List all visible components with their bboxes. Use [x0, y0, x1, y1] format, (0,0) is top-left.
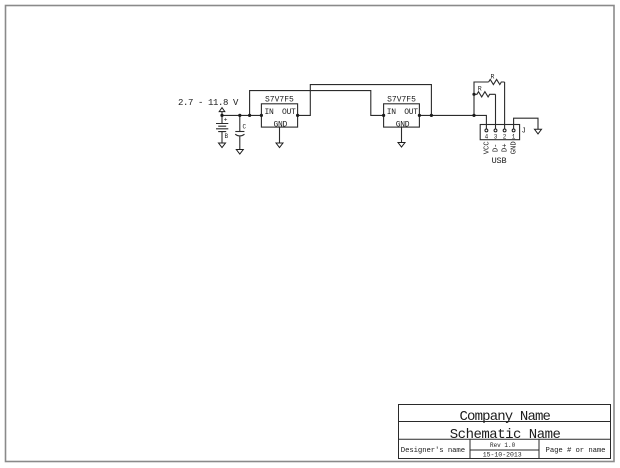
- svg-text:J: J: [522, 128, 526, 136]
- svg-text:Company Name: Company Name: [459, 409, 550, 425]
- svg-text:VCC: VCC: [484, 141, 492, 155]
- svg-text:S7V7F5: S7V7F5: [265, 96, 294, 105]
- svg-text:Designer's name: Designer's name: [401, 447, 465, 455]
- svg-text:S7V7F5: S7V7F5: [387, 96, 416, 105]
- svg-text:R: R: [478, 86, 482, 93]
- svg-text:GND: GND: [396, 120, 410, 129]
- svg-text:R: R: [491, 73, 495, 80]
- svg-text:2.7 - 11.8 V: 2.7 - 11.8 V: [178, 98, 239, 108]
- svg-text:B: B: [225, 133, 229, 140]
- svg-text:1: 1: [512, 133, 516, 140]
- svg-text:Page # or name: Page # or name: [546, 447, 606, 455]
- svg-text:OUT: OUT: [404, 108, 418, 117]
- svg-text:D-: D-: [493, 143, 501, 152]
- svg-text:C: C: [243, 123, 247, 130]
- svg-text:D+: D+: [502, 143, 510, 152]
- svg-text:IN: IN: [387, 108, 397, 117]
- svg-text:4: 4: [485, 133, 489, 140]
- svg-text:3: 3: [494, 133, 498, 140]
- svg-text:15-10-2013: 15-10-2013: [483, 452, 522, 459]
- svg-text:GND: GND: [274, 120, 288, 129]
- svg-text:IN: IN: [264, 108, 274, 117]
- svg-text:USB: USB: [492, 156, 507, 166]
- svg-text:GND: GND: [511, 141, 519, 154]
- svg-text:Rev 1.0: Rev 1.0: [490, 442, 516, 449]
- svg-text:OUT: OUT: [282, 108, 296, 117]
- svg-text:+: +: [224, 117, 228, 124]
- svg-text:2: 2: [503, 133, 507, 140]
- svg-text:Schematic Name: Schematic Name: [450, 427, 561, 443]
